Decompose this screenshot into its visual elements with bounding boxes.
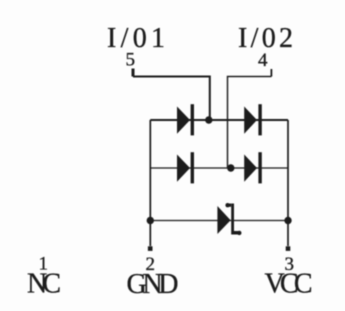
svg-text:I/01: I/01 [107,23,165,54]
junction node B (pin4/middle row) [227,164,234,171]
wire left rail [149,120,151,246]
pin NC label [27,268,61,299]
wire bottom row [150,220,288,222]
svg-text:NC: NC [27,268,61,299]
svg-text:4: 4 [258,50,268,71]
pin 5 number [126,50,136,71]
pin 2 terminal [148,246,153,251]
diode D2 [244,104,262,135]
svg-text:VCC: VCC [265,269,313,300]
wire right rail [287,120,289,246]
wire pin5 to node A [133,77,210,121]
wire pin5 tick [132,69,135,77]
pin 2 number [146,254,156,275]
pin VCC label [265,269,313,300]
svg-text:5: 5 [126,50,136,71]
wire middle row [150,167,288,169]
diode D1 [177,104,194,135]
junction node A (pin5/top row) [205,116,212,123]
wire pin4 tick [270,69,272,77]
junction bottom-right [284,217,291,224]
node I/O1 label [107,23,165,54]
junction bottom-left [147,217,154,224]
pin 3 terminal [286,246,291,251]
node I/O2 label [238,23,293,54]
wire pin4 to node B [228,77,272,169]
pin GND label [127,269,179,300]
zener diode Z1 [217,203,241,235]
diode D3 [177,152,194,183]
diode D4 [244,152,262,183]
wire top row [150,119,288,121]
svg-text:GND: GND [127,269,179,300]
pin 1 number [39,254,49,275]
pin 4 number [258,50,268,71]
pin 3 number [285,254,295,275]
